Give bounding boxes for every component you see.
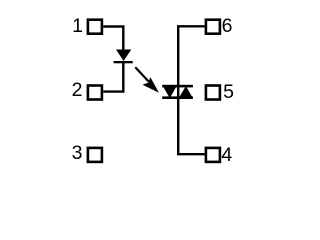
pin 2 pad — [88, 86, 102, 100]
triac bottom bar — [162, 96, 193, 99]
triac left triangle — [163, 86, 177, 99]
pin 5 pad — [206, 86, 220, 100]
LED D1 triangle (anode) — [116, 50, 131, 62]
svg-text:4: 4 — [221, 144, 232, 166]
triac top bar — [162, 85, 193, 88]
pin 4 pad — [206, 148, 220, 162]
svg-text:2: 2 — [72, 79, 83, 101]
svg-text:3: 3 — [72, 142, 83, 164]
wire pin 1 to LED anode — [103, 27, 123, 51]
svg-text:1: 1 — [72, 15, 83, 37]
svg-text:6: 6 — [222, 15, 233, 37]
wire pin 6 to triac to pin 4 (right rail) — [178, 26, 204, 154]
pin 3 pad — [88, 148, 102, 162]
pin 1 pad — [88, 20, 102, 34]
triac right triangle — [179, 86, 193, 98]
light emission arrow — [135, 67, 159, 93]
pin 6 pad — [206, 20, 220, 34]
svg-text:5: 5 — [223, 81, 234, 103]
wire LED cathode to pin 2 — [103, 62, 123, 92]
LED D1 cathode bar — [114, 61, 133, 63]
